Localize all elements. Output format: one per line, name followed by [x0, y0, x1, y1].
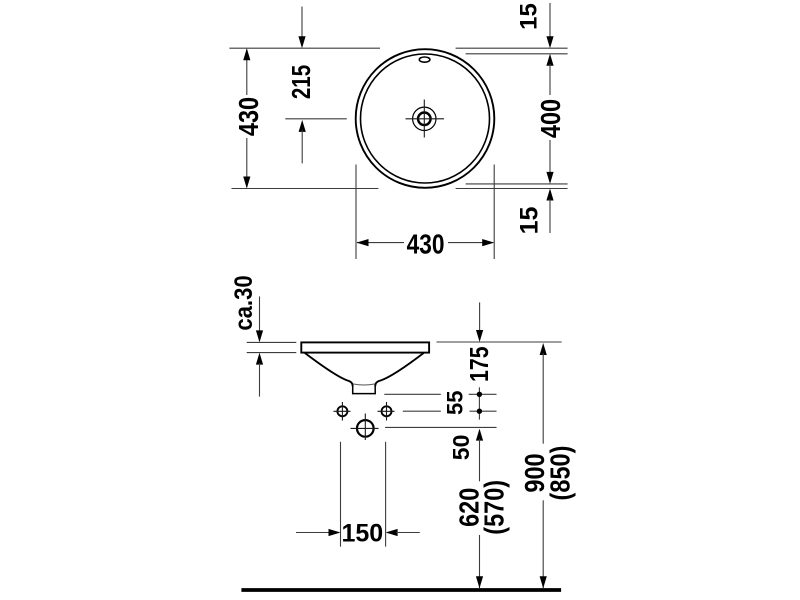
svg-text:150: 150 [341, 520, 383, 548]
drain crosshair horizontal [406, 118, 445, 120]
svg-text:175: 175 [465, 346, 495, 382]
basin rim rectangle [301, 342, 429, 352]
faucet hole right crosshair [378, 402, 395, 421]
drain inner circle [418, 113, 431, 126]
dimension 215: upper outside arrow line [298, 7, 305, 49]
dimension 55: vertical line with dots [477, 387, 482, 419]
bowl bottom faint arc across drain stub [353, 384, 375, 385]
main fixing hole circle [357, 420, 374, 437]
svg-text:400: 400 [536, 99, 566, 138]
dimension 430 left: upper line segment with arrow up [243, 48, 250, 188]
dimension 620(570): line with arrows [476, 429, 483, 589]
extension line right of 430 bottom [493, 165, 495, 260]
bottom tangent reference line (left part) [232, 188, 379, 190]
faucet hole left crosshair [334, 402, 351, 421]
top-right outer tangent line [456, 47, 568, 49]
basin inner bowl edge circle [361, 54, 490, 183]
dimension 15 top-right: upper arrow line [546, 3, 553, 95]
dimension 400: lower segment with arrow down [546, 140, 553, 233]
drain crosshair vertical [423, 100, 425, 138]
main fixing hole crosshair [351, 414, 379, 441]
svg-text:15: 15 [515, 207, 543, 235]
countertop reference line upper (left of rim) [247, 341, 297, 343]
svg-text:50: 50 [448, 435, 474, 461]
rim-top reference line extending right [437, 341, 562, 343]
svg-text:ca.30: ca.30 [230, 275, 257, 330]
dimension 175: upper arrow line [476, 302, 483, 342]
extension line left of 430 bottom [355, 165, 357, 260]
top-right inner tangent line [466, 53, 568, 55]
dimension 150: left outside arrow line [296, 529, 341, 536]
dimension 150: right outside arrow line [386, 529, 420, 536]
drain outer circle [413, 107, 436, 130]
svg-text:(850): (850) [546, 446, 576, 501]
bottom-right outer tangent line [456, 188, 568, 190]
svg-text:430: 430 [407, 229, 445, 260]
dimension 215: lower outside arrow line [299, 120, 306, 163]
svg-text:55: 55 [443, 391, 468, 415]
svg-text:430: 430 [234, 97, 264, 136]
fixing bolt reference line [385, 426, 496, 428]
svg-text:(570): (570) [479, 480, 509, 535]
extension line left faucet hole [340, 442, 342, 547]
floor line [241, 588, 561, 592]
basin bowl outline [305, 353, 424, 386]
hole reference line 1 (overflow level) [384, 393, 496, 395]
dimension 215: center reference line [285, 118, 347, 120]
svg-text:15: 15 [515, 3, 542, 30]
dimension 430 bottom: line with outward arrows [357, 239, 495, 246]
top tangent reference line (left part) [229, 47, 380, 49]
hole reference line 2 (faucet level) [403, 410, 497, 412]
svg-text:215: 215 [287, 65, 316, 99]
overflow hole ellipse [419, 57, 430, 62]
basin outer rim circle [356, 49, 495, 188]
dimension 900(850): line with arrows [540, 343, 547, 588]
dimension ca.30: upper arrow line [256, 296, 263, 396]
drain stub walls and bottom [353, 385, 376, 394]
bottom-right inner tangent line [466, 183, 568, 185]
extension line right faucet hole [385, 442, 387, 547]
faucet hole left circle [337, 406, 347, 416]
faucet hole right circle [382, 406, 392, 416]
countertop reference line lower (left of rim) [247, 352, 297, 354]
